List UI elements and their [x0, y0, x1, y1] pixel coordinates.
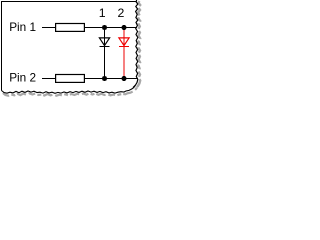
svg-text:Pin 1: Pin 1: [9, 20, 36, 34]
wire R1 to torn edge (top rail): [84, 27, 137, 28]
diode D1 cathode bar: [99, 46, 109, 47]
svg-text:2: 2: [117, 6, 124, 20]
diode D1 vertical wire: [104, 27, 105, 79]
wire Pin 2 to R2: [42, 78, 56, 79]
resistor R2: [56, 75, 85, 83]
junction dot node 1 top: [102, 25, 107, 30]
diode D2 vertical wire (red): [124, 29, 125, 77]
page border top: [1, 1, 137, 2]
junction dot node 2 bottom: [122, 76, 127, 81]
diode D1 triangle: [99, 38, 109, 46]
torn edge bottom: [2, 85, 136, 93]
junction dot node 1 bottom: [102, 76, 107, 81]
svg-text:1: 1: [99, 6, 106, 20]
junction dot node 2 top: [122, 25, 127, 30]
diode D2 cathode bar (red): [119, 46, 129, 47]
svg-text:Pin 2: Pin 2: [9, 71, 36, 85]
diode D2 triangle (red): [119, 38, 129, 46]
torn edge right shadow: [135, 1, 140, 89]
page border left: [1, 1, 2, 91]
resistor R1: [56, 24, 85, 32]
wire Pin 1 to R1: [42, 27, 56, 28]
torn edge bottom shadow: [3, 88, 137, 96]
wire R2 to torn edge (bottom rail): [84, 78, 138, 79]
torn edge right: [133, 0, 138, 88]
